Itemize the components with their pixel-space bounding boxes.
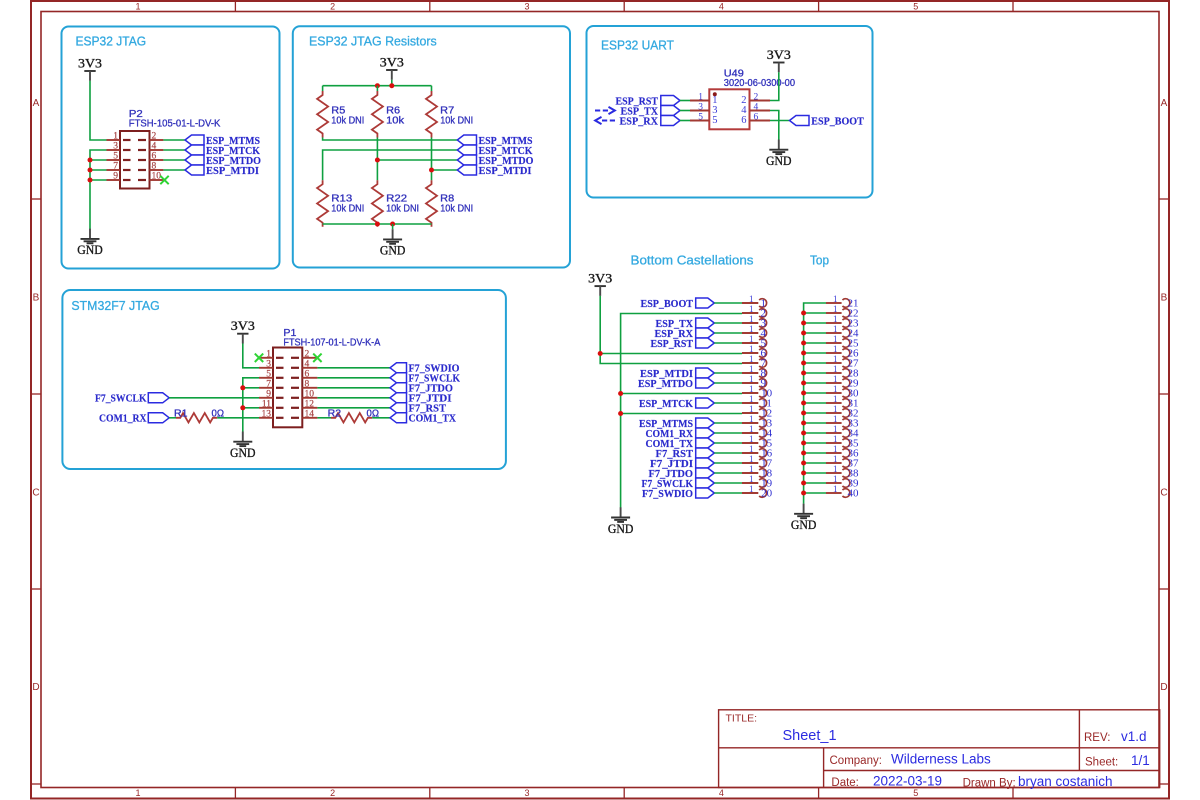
svg-text:Top: Top: [810, 252, 829, 267]
wire 3V3 rail: [600, 296, 742, 364]
svg-text:ESP_BOOT: ESP_BOOT: [641, 298, 694, 310]
power 3V3 (ESP32 JTAG): [78, 56, 102, 81]
castellation pad 26: [826, 344, 859, 360]
castellation pad 24: [826, 324, 859, 340]
junction rail/pad 28: [801, 371, 806, 376]
castellation pad 39: [826, 474, 859, 490]
junction GND/pin12: [618, 411, 623, 416]
svg-text:2: 2: [330, 1, 335, 11]
svg-text:10k DNI: 10k DNI: [331, 116, 364, 127]
wire flag to pad 17: [714, 462, 742, 464]
ground (ESP32 JTAG): [77, 229, 103, 258]
wire ESP_MTDI row: [432, 169, 458, 171]
svg-text:1: 1: [749, 424, 754, 434]
castellation pad 33: [826, 414, 859, 430]
P2 pin 5: [107, 152, 164, 162]
wire R7 top stub: [431, 86, 433, 91]
wire pad 31: [804, 402, 826, 404]
junction GND/pin10: [618, 391, 623, 396]
wire flag to pad 20: [714, 492, 742, 494]
resistor R13: [317, 180, 364, 227]
svg-text:Company:: Company:: [830, 755, 882, 767]
power 3V3 (STM32F7): [231, 319, 255, 344]
svg-text:6: 6: [754, 113, 759, 123]
svg-text:1: 1: [749, 394, 754, 404]
wire flag to pad 19: [714, 482, 742, 484]
svg-text:ESP_MTDI: ESP_MTDI: [479, 165, 532, 177]
wire pad 23: [804, 322, 826, 324]
wire flag to pad 4: [714, 332, 742, 334]
wire flag to pad 8: [714, 372, 742, 374]
wire pin 2 to 3V3: [770, 72, 779, 100]
svg-text:1: 1: [833, 394, 838, 404]
svg-text:10k DNI: 10k DNI: [386, 203, 419, 214]
svg-text:B: B: [33, 293, 40, 304]
resistor R8: [426, 180, 473, 227]
resistor R6: [372, 91, 405, 138]
junction rail/pad 40: [801, 491, 806, 496]
net flag ESP_MTCK: [185, 145, 260, 157]
wire F7_SWCLK to pin 9: [169, 397, 259, 399]
P1 pin 7: [259, 379, 317, 389]
net flag ESP_MTDO (resistors): [457, 155, 534, 167]
net flag F7_JTDI (castellation 17): [650, 458, 714, 470]
wire pin 12: [621, 413, 742, 415]
castellation pad 38: [826, 464, 859, 480]
svg-text:3020-06-0300-00: 3020-06-0300-00: [724, 78, 796, 89]
svg-text:5: 5: [913, 1, 918, 11]
castellation pad 6: [742, 344, 767, 360]
svg-text:12: 12: [305, 399, 315, 409]
svg-text:1: 1: [749, 344, 754, 354]
wire pad 29: [804, 382, 826, 384]
wire pad 35: [804, 442, 826, 444]
svg-text:6: 6: [741, 115, 746, 126]
wire pad 34: [804, 432, 826, 434]
net flag F7_SWDIO (castellation 20): [642, 488, 714, 500]
castellation pad 9: [742, 374, 767, 390]
svg-text:3V3: 3V3: [78, 56, 102, 70]
svg-text:14: 14: [305, 409, 315, 419]
svg-text:1: 1: [833, 304, 838, 314]
svg-text:1: 1: [749, 324, 754, 334]
svg-text:1: 1: [749, 354, 754, 364]
net flag F7_SWCLK: [390, 373, 460, 385]
U49 pin 1 marker dot: [713, 92, 717, 96]
U49 pin 2: [741, 93, 770, 107]
svg-text:3: 3: [113, 142, 118, 152]
wire flag to pin: [680, 100, 690, 102]
svg-text:1/1: 1/1: [1131, 753, 1150, 768]
svg-text:F7_SWCLK: F7_SWCLK: [95, 393, 147, 405]
svg-text:TITLE:: TITLE:: [726, 713, 758, 725]
junction rail/GND: [390, 222, 395, 227]
wire to pin 9: [90, 179, 107, 181]
svg-text:5: 5: [266, 369, 271, 379]
castellation pad 4: [742, 324, 767, 340]
junction rail/pad 31: [801, 401, 806, 406]
ground (resistors): [392, 224, 394, 229]
svg-text:ESP_MTCK: ESP_MTCK: [639, 398, 693, 410]
svg-text:R1: R1: [174, 409, 188, 420]
wire pad 33: [804, 422, 826, 424]
wire pad 30: [804, 392, 826, 394]
junction rail/pad 26: [801, 351, 806, 356]
P1 pin 11: [259, 399, 317, 409]
P2 pin 9: [107, 172, 164, 182]
wire pad 37: [804, 462, 826, 464]
junction at pin 11: [240, 405, 245, 410]
svg-text:ESP_RX: ESP_RX: [620, 115, 659, 127]
U49 pin 5: [690, 113, 718, 127]
svg-text:40: 40: [848, 488, 860, 500]
junction rail/pad 36: [801, 451, 806, 456]
svg-text:1: 1: [749, 464, 754, 474]
net flag F7_RST: [390, 403, 447, 415]
svg-text:1: 1: [833, 474, 838, 484]
svg-text:ESP_MTDI: ESP_MTDI: [206, 165, 259, 177]
wire GND rail P2 pins 3,5,7,9: [90, 150, 107, 229]
junction rail/pad 32: [801, 411, 806, 416]
svg-text:1: 1: [749, 364, 754, 374]
wire 3V3 stub: [391, 80, 393, 86]
svg-text:1: 1: [833, 354, 838, 364]
net flag F7_SWCLK (castellation 19): [642, 478, 715, 490]
svg-text:ESP32 UART: ESP32 UART: [601, 38, 674, 53]
castellation pad 3: [742, 314, 767, 330]
svg-text:1: 1: [698, 93, 703, 103]
castellation pad 32: [826, 404, 859, 420]
net flag F7_JTDO: [390, 383, 453, 395]
svg-text:1: 1: [833, 384, 838, 394]
wire to pin 5: [90, 159, 107, 161]
svg-text:ESP32 JTAG: ESP32 JTAG: [76, 34, 147, 49]
svg-text:10: 10: [305, 389, 315, 399]
junction 3V3/pin6: [598, 351, 603, 356]
svg-text:1: 1: [749, 374, 754, 384]
wire flag to pad 15: [714, 442, 742, 444]
svg-text:4: 4: [754, 103, 759, 113]
castellation pad 1: [742, 294, 767, 310]
svg-text:1: 1: [833, 414, 838, 424]
svg-text:GND: GND: [766, 154, 792, 168]
castellation pad 15: [742, 434, 773, 450]
wire flag to pin: [680, 120, 690, 122]
svg-text:5: 5: [698, 113, 703, 123]
net flag ESP_MTCK (resistors): [457, 145, 533, 157]
wire R6 bottom to R22: [376, 138, 378, 181]
power 3V3 (castellations): [588, 271, 612, 296]
castellation pad 34: [826, 424, 859, 440]
net flag ESP_BOOT (castellation 1): [641, 298, 715, 310]
svg-text:5: 5: [913, 788, 918, 798]
svg-text:2: 2: [754, 93, 759, 103]
castellation pad 20: [742, 484, 773, 500]
svg-text:1: 1: [135, 1, 140, 11]
svg-text:GND: GND: [791, 518, 817, 532]
net flag ESP_MTMS (castellation 13): [639, 418, 714, 430]
svg-text:5: 5: [113, 152, 118, 162]
junction at pin 9: [88, 178, 93, 183]
junction rail/pad 37: [801, 461, 806, 466]
P1 pin 9: [259, 389, 317, 399]
junction rail/pad 27: [801, 361, 806, 366]
svg-text:C: C: [32, 488, 39, 499]
wire pad 32: [804, 412, 826, 414]
net flag F7_JTDO (castellation 18): [649, 468, 715, 480]
svg-text:1: 1: [749, 304, 754, 314]
note box ESP32 JTAG Resistors: [293, 26, 570, 267]
svg-text:3: 3: [698, 103, 703, 113]
net flag F7_RST (castellation 16): [656, 448, 715, 460]
net flag ESP_MTDI (resistors): [457, 165, 531, 177]
wire pin 6 to flag: [163, 159, 185, 161]
svg-text:GND: GND: [608, 522, 634, 536]
svg-text:5: 5: [712, 115, 717, 126]
junction at pin 7: [240, 385, 245, 390]
power 3V3 (resistors): [380, 55, 404, 80]
wire GND rail: [621, 314, 742, 508]
castellation pad 29: [826, 374, 859, 390]
no-connect X on P2 pin 10: [160, 176, 168, 184]
wire pad 40: [804, 492, 826, 494]
wire COM1_RX to R1: [169, 417, 176, 419]
svg-text:ESP_BOOT: ESP_BOOT: [811, 115, 864, 127]
svg-text:1: 1: [833, 334, 838, 344]
net flag COM1_TX: [390, 413, 456, 425]
castellation pad 11: [742, 394, 772, 410]
wire Top GND rail: [804, 303, 826, 504]
wire pad 27: [804, 362, 826, 364]
svg-text:ESP32 JTAG Resistors: ESP32 JTAG Resistors: [309, 34, 437, 49]
svg-text:Sheet:: Sheet:: [1085, 757, 1118, 769]
net flag ESP_MTCK (castellation 11): [639, 398, 714, 410]
svg-text:REV:: REV:: [1084, 732, 1110, 744]
svg-text:2022-03-19: 2022-03-19: [873, 774, 942, 789]
svg-text:A: A: [1161, 98, 1168, 109]
U49 pin 6: [741, 113, 770, 127]
castellation pad 23: [826, 314, 859, 330]
svg-text:2: 2: [330, 788, 335, 798]
P1 pin 13: [259, 409, 317, 419]
castellation pad 18: [742, 464, 773, 480]
svg-text:F7_SWDIO: F7_SWDIO: [642, 488, 693, 500]
castellation pad 16: [742, 444, 773, 460]
arrow <-- marker for ESP_RX: [595, 117, 615, 124]
castellation pad 35: [826, 434, 859, 450]
P2 pin 7: [107, 162, 164, 172]
svg-text:1: 1: [749, 434, 754, 444]
wire to pin 7: [90, 169, 107, 171]
wire pad 26: [804, 352, 826, 354]
svg-text:1: 1: [135, 788, 140, 798]
net flag COM1_RX (castellation 14): [646, 428, 715, 440]
net flag F7_SWCLK (left): [95, 393, 169, 405]
no-connect X on P1 pin 2: [313, 354, 321, 362]
ground (STM32F7): [230, 432, 256, 461]
svg-text:3: 3: [524, 788, 529, 798]
net flag COM1_TX (castellation 15): [646, 438, 715, 450]
castellation pad 37: [826, 454, 859, 470]
net flag COM1_RX (left): [99, 413, 169, 425]
net flag ESP_RX: [620, 115, 681, 127]
svg-text:3: 3: [266, 359, 271, 369]
svg-text:4: 4: [152, 142, 157, 152]
svg-text:4: 4: [305, 359, 310, 369]
svg-text:1: 1: [749, 484, 754, 494]
wire pad 39: [804, 482, 826, 484]
wire R7 bottom to R8: [431, 138, 433, 181]
junction rail/R22: [375, 222, 380, 227]
wire pin 12 to flag: [317, 407, 390, 409]
junction rail/pad 34: [801, 431, 806, 436]
U49 pin 1: [690, 93, 718, 107]
castellation pad 8: [742, 364, 767, 380]
net flag ESP_MTDO: [185, 155, 261, 167]
svg-text:R2: R2: [328, 409, 342, 420]
svg-text:1: 1: [749, 404, 754, 414]
wire pin 4 to GND: [770, 111, 779, 140]
wire bottom rail: [323, 223, 432, 225]
wire flag to pad 5: [714, 342, 742, 344]
castellation pad 7: [742, 354, 767, 370]
ground (bottom castellations): [608, 507, 634, 536]
svg-text:GND: GND: [230, 446, 256, 460]
castellation pad 27: [826, 354, 859, 370]
wire flag to pad 3: [714, 322, 742, 324]
svg-text:1: 1: [749, 294, 754, 304]
svg-text:bryan costanich: bryan costanich: [1018, 774, 1113, 789]
svg-text:v1.d: v1.d: [1121, 729, 1147, 744]
svg-text:1: 1: [749, 334, 754, 344]
castellation pad 5: [742, 334, 767, 350]
junction rail/pad 24: [801, 331, 806, 336]
castellation pad 17: [742, 454, 773, 470]
svg-text:1: 1: [749, 444, 754, 454]
svg-text:1: 1: [833, 404, 838, 414]
svg-text:1: 1: [833, 374, 838, 384]
junction at pin 5: [88, 158, 93, 163]
net flag ESP_RST (castellation 5): [651, 338, 715, 350]
svg-text:2: 2: [152, 132, 157, 142]
svg-text:COM1_RX: COM1_RX: [99, 413, 147, 425]
svg-text:GND: GND: [380, 244, 406, 258]
junction rail/pad 22: [801, 311, 806, 316]
net flag ESP_RX (castellation 4): [655, 328, 715, 340]
resistor R2 0ohm: [328, 409, 380, 423]
ground (UART): [766, 140, 792, 169]
svg-text:2: 2: [305, 349, 310, 359]
wire R1 to pin 13: [217, 417, 259, 419]
svg-text:1: 1: [833, 454, 838, 464]
wire pad 25: [804, 342, 826, 344]
power 3V3 (UART): [767, 48, 791, 73]
svg-text:8: 8: [152, 162, 157, 172]
svg-text:1: 1: [833, 464, 838, 474]
connector P2 body: [120, 131, 150, 189]
svg-text:6: 6: [152, 152, 157, 162]
wire pin 4 to flag: [163, 149, 185, 151]
wire flag to pad 16: [714, 452, 742, 454]
junction rail/pad 23: [801, 321, 806, 326]
svg-text:4: 4: [719, 788, 724, 798]
wire 3V3 to P2 pin 1: [90, 81, 107, 140]
castellation pad 28: [826, 364, 859, 380]
castellation pad 12: [742, 404, 772, 420]
P2 pin 3: [107, 142, 164, 152]
net flag ESP_MTMS: [185, 135, 260, 147]
svg-text:3: 3: [524, 1, 529, 11]
svg-text:1: 1: [833, 424, 838, 434]
wire pin 8 to flag: [163, 169, 185, 171]
svg-text:A: A: [33, 98, 40, 109]
net flag ESP_MTDO (castellation 9): [638, 378, 714, 390]
junction rail/pad 29: [801, 381, 806, 386]
svg-text:4: 4: [719, 1, 724, 11]
net flag F7_SWDIO: [390, 363, 460, 375]
note box ESP32 JTAG: [62, 27, 280, 269]
resistor R1 0ohm: [174, 409, 224, 423]
P1 pin 5: [259, 369, 317, 379]
P1 pin 3: [259, 359, 317, 369]
net flag ESP_TX (castellation 3): [656, 318, 715, 330]
castellation pad 31: [826, 394, 859, 410]
wire pin 6: [600, 353, 742, 355]
wire flag to pad 9: [714, 382, 742, 384]
wire R6 top stub: [376, 86, 378, 91]
wire pin 2 to flag: [163, 139, 185, 141]
net flag ESP_TX: [621, 105, 681, 117]
U49 pin 3: [690, 103, 718, 117]
note box ESP32 UART: [587, 26, 873, 198]
svg-text:7: 7: [113, 162, 118, 172]
wire pin 6 to flag: [317, 377, 390, 379]
svg-text:8: 8: [305, 379, 310, 389]
svg-text:1: 1: [749, 384, 754, 394]
wire pad 24: [804, 332, 826, 334]
net flag ESP_MTDI: [185, 165, 259, 177]
svg-text:20: 20: [761, 488, 773, 500]
castellation pad 13: [742, 414, 773, 430]
wire 3V3 to P1 pin 3: [243, 344, 259, 368]
castellation pad 25: [826, 334, 859, 350]
note box STM32F7 JTAG: [62, 290, 506, 469]
wire flag to pad 1: [714, 302, 742, 304]
wire ESP_MTDO row: [377, 159, 457, 161]
wire ESP_MTCK row to R13: [323, 150, 458, 180]
net flag ESP_RST: [616, 95, 681, 107]
wire flag to pad 11: [714, 402, 742, 404]
svg-text:11: 11: [262, 399, 271, 409]
castellation pad 2: [742, 304, 767, 320]
svg-text:ESP_RST: ESP_RST: [651, 338, 694, 350]
wire pin 10 to flag: [317, 397, 390, 399]
junction rail/pad 25: [801, 341, 806, 346]
net flag ESP_BOOT: [790, 115, 865, 127]
svg-text:1: 1: [749, 474, 754, 484]
wire flag to pad 14: [714, 432, 742, 434]
svg-text:Bottom Castellations: Bottom Castellations: [631, 252, 755, 267]
svg-text:D: D: [1160, 682, 1167, 693]
svg-text:1: 1: [833, 344, 838, 354]
svg-text:STM32F7 JTAG: STM32F7 JTAG: [71, 298, 159, 313]
svg-text:COM1_TX: COM1_TX: [409, 413, 457, 425]
wire to pin 7: [243, 387, 259, 389]
no-connect X on P1 pin 1: [255, 354, 263, 362]
svg-text:9: 9: [266, 389, 271, 399]
wire pad 38: [804, 472, 826, 474]
wire pin 14 to R2: [317, 417, 331, 419]
